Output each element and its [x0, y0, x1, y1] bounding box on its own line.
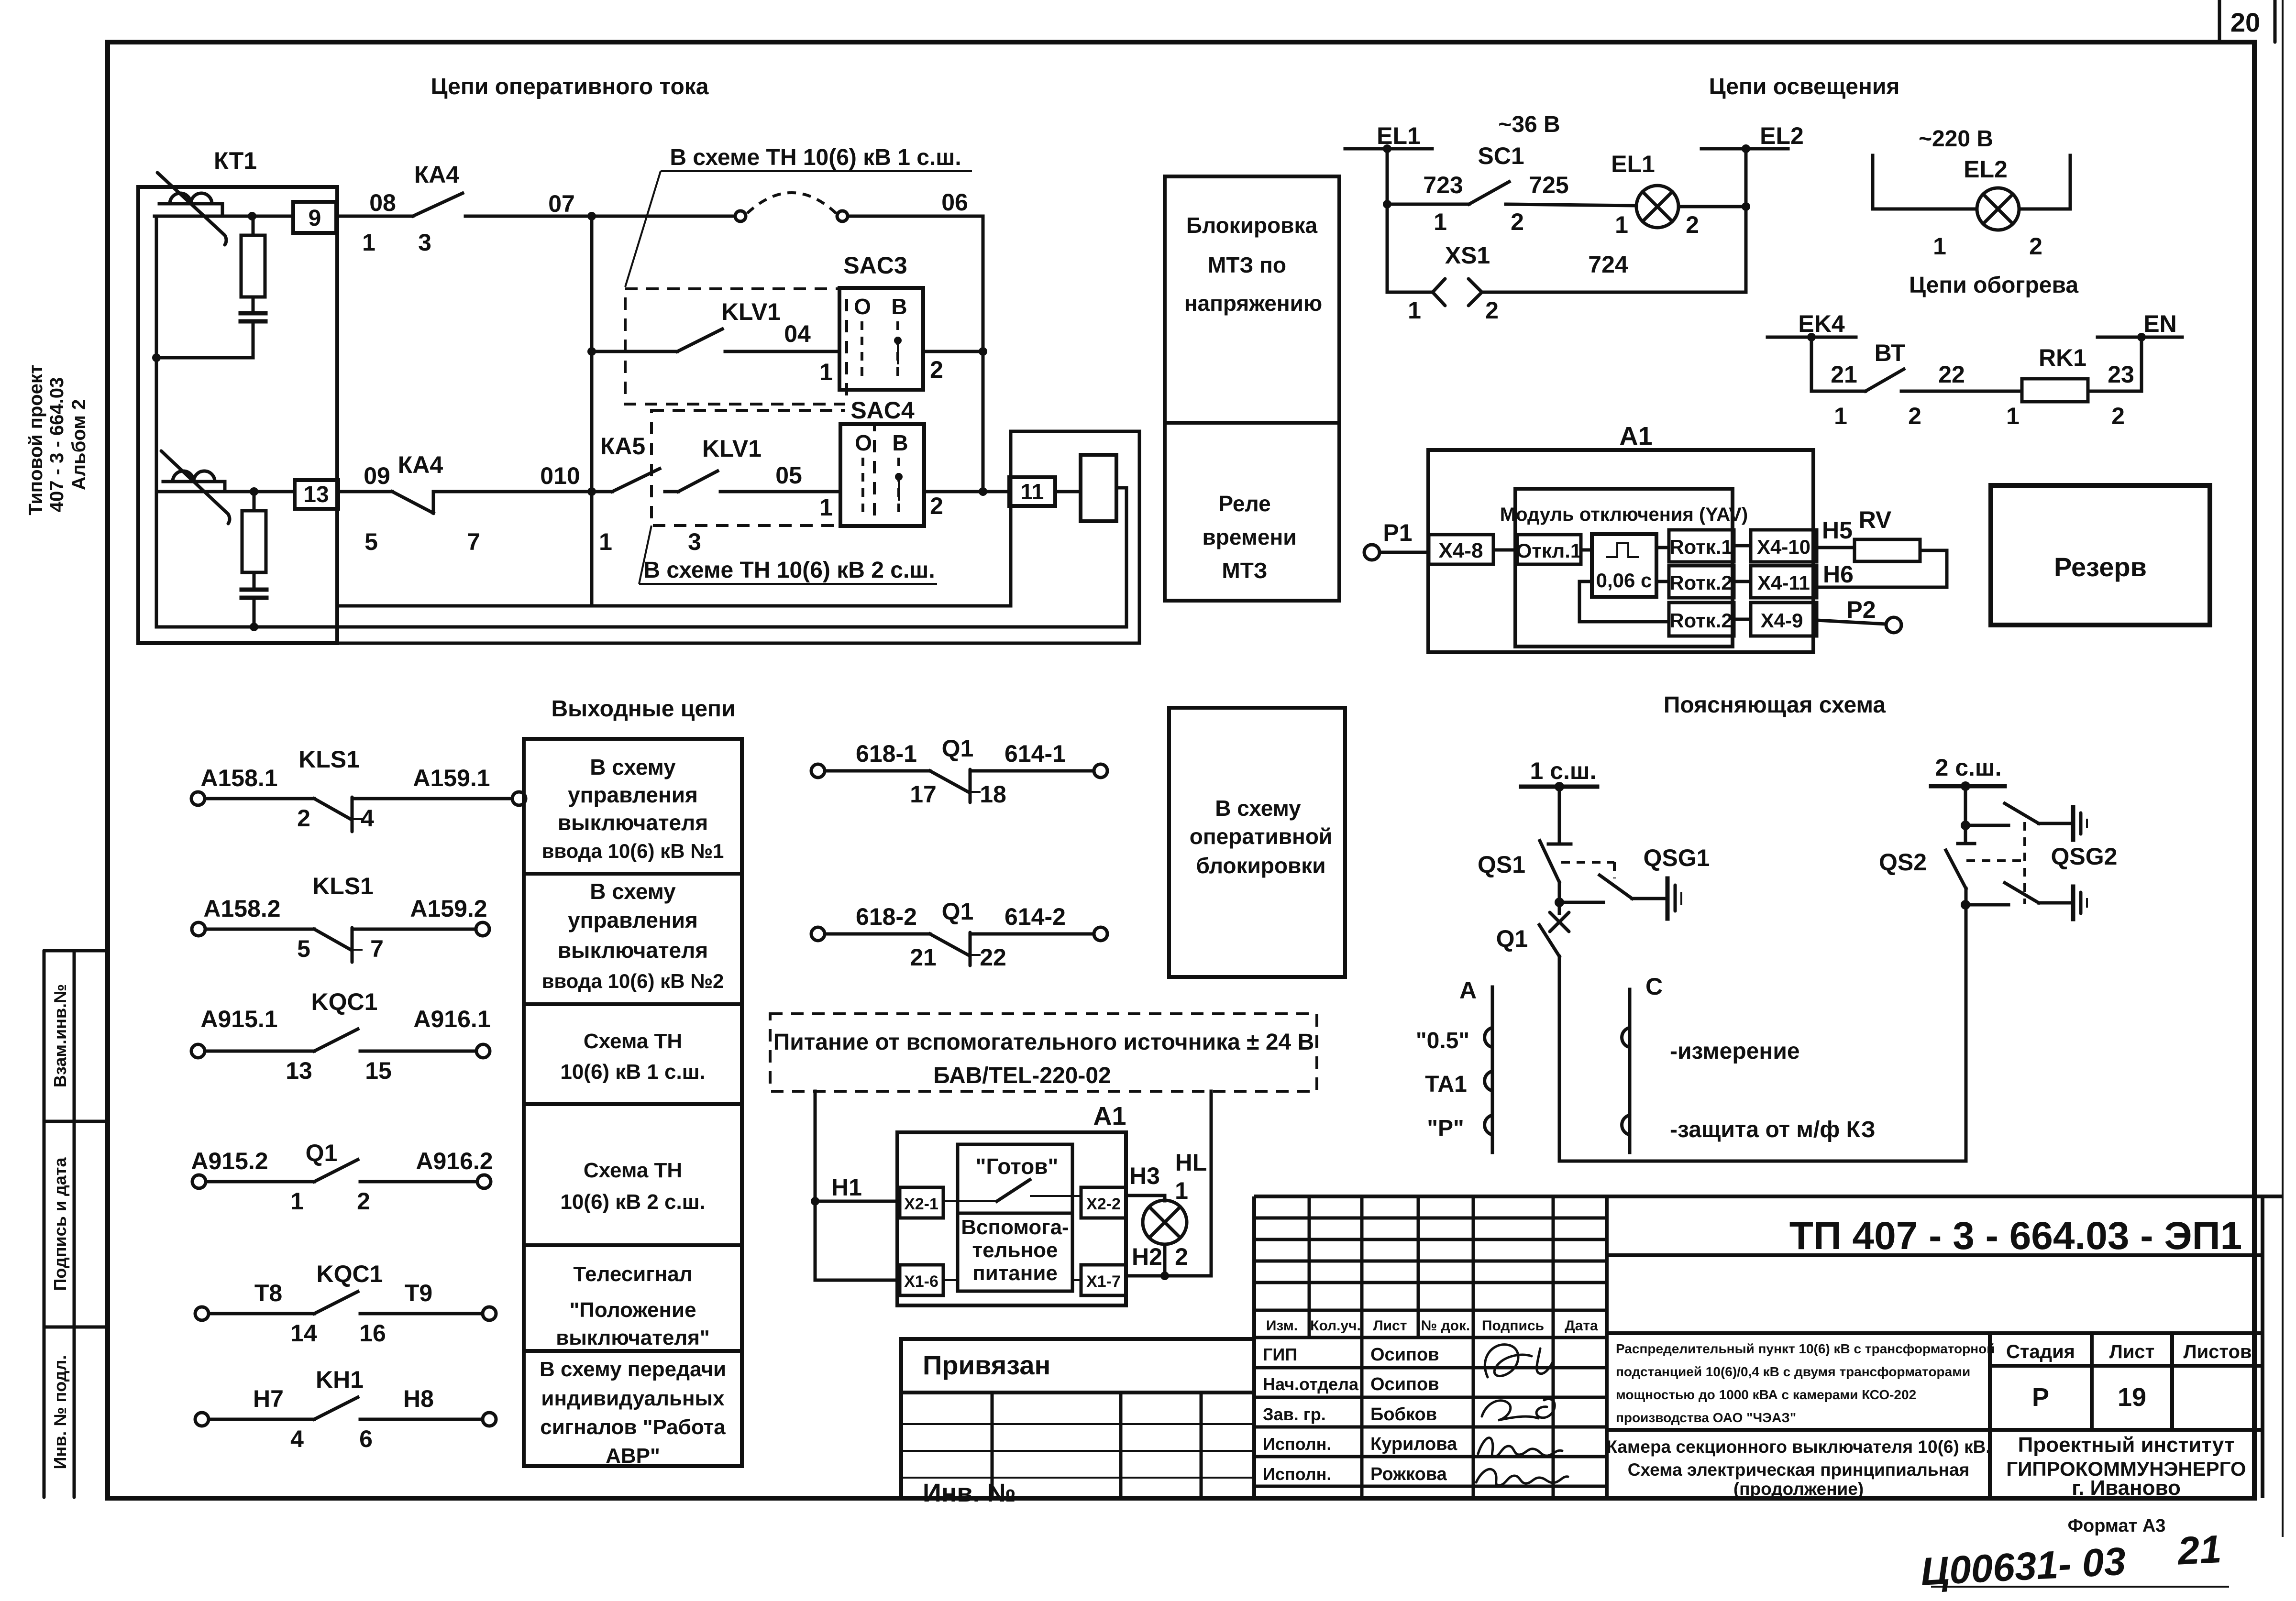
box text 5 — [556, 1262, 710, 1349]
svg-text:Инв. № подл.: Инв. № подл. — [50, 1355, 70, 1469]
svg-text:С: С — [1645, 973, 1663, 1000]
svg-text:KLS1: KLS1 — [312, 873, 374, 899]
svg-text:Кол.уч.: Кол.уч. — [1310, 1318, 1361, 1334]
svg-text:Р: Р — [2032, 1383, 2049, 1412]
terminal box 9 — [293, 202, 336, 233]
divider — [1607, 1331, 2263, 1335]
ready contact — [943, 1180, 1081, 1201]
svg-text:Телесигнал: Телесигнал — [573, 1262, 692, 1286]
wire — [1734, 580, 1751, 583]
svg-text:5: 5 — [297, 935, 310, 962]
svg-text:Т8: Т8 — [254, 1280, 282, 1306]
220V left stub — [1871, 155, 1875, 209]
svg-text:9: 9 — [309, 206, 321, 231]
breaker Q1 X mark — [1550, 902, 1569, 932]
wire to QSG2 lower — [1965, 903, 2009, 907]
svg-text:2: 2 — [1511, 208, 1524, 235]
svg-text:ВТ: ВТ — [1875, 340, 1906, 366]
svg-text:EL2: EL2 — [1964, 156, 2008, 183]
svg-text:Rотк.2: Rотк.2 — [1669, 609, 1733, 632]
box: В схему оперативной блокировки — [1169, 708, 1345, 977]
EK4 stub — [1767, 333, 1856, 341]
box text 2 — [542, 879, 724, 992]
box text 4 — [560, 1159, 705, 1214]
terminal X2-2 — [1081, 1187, 1126, 1218]
svg-text:SC1: SC1 — [1478, 143, 1524, 169]
contact SC1 — [1469, 182, 1509, 204]
bottom module A1 box — [897, 1132, 1126, 1305]
svg-text:Х4-9: Х4-9 — [1761, 609, 1803, 632]
svg-text:14: 14 — [290, 1320, 317, 1347]
wire row C left — [156, 490, 295, 493]
svg-text:19: 19 — [2118, 1383, 2146, 1412]
svg-text:Подпись: Подпись — [1482, 1318, 1544, 1334]
svg-text:времени: времени — [1202, 525, 1296, 549]
svg-text:АВР": АВР" — [606, 1444, 660, 1468]
svg-text:Н6: Н6 — [1823, 561, 1854, 588]
reserve box Резерв — [1991, 485, 2210, 625]
svg-text:В: В — [892, 430, 908, 455]
title block outer — [1607, 1196, 2283, 1498]
svg-text:Н7: Н7 — [253, 1385, 284, 1412]
svg-text:напряжению: напряжению — [1184, 291, 1322, 316]
svg-text:~36 В: ~36 В — [1498, 112, 1560, 137]
svg-text:1: 1 — [1434, 208, 1447, 235]
svg-text:20: 20 — [2230, 7, 2260, 37]
output circuits destination boxes — [524, 739, 742, 1466]
contact KQC1 row — [191, 1029, 490, 1058]
junction node row B — [587, 347, 596, 356]
leader + label: В схеме ТН 10(6) кВ 1 с.ш. — [625, 145, 972, 287]
resistor R of KT1 (row A) — [252, 216, 255, 235]
svg-text:(продолжение): (продолжение) — [1733, 1479, 1864, 1499]
divider — [1607, 1428, 2263, 1432]
svg-text:Н5: Н5 — [1822, 517, 1853, 544]
terminal box 11 — [1009, 477, 1055, 506]
svg-text:КА4: КА4 — [398, 451, 443, 478]
svg-text:010: 010 — [540, 462, 580, 489]
svg-text:Схема ТН: Схема ТН — [584, 1030, 682, 1053]
svg-text:04: 04 — [784, 320, 811, 347]
stamp label Взам.инв.№ — [50, 984, 70, 1087]
page number box 20 — [2219, 0, 2275, 42]
svg-text:KQC1: KQC1 — [311, 988, 378, 1015]
svg-text:О: О — [855, 430, 872, 455]
contact KLV1 (row C) — [678, 471, 717, 492]
svg-text:EL2: EL2 — [1760, 122, 1804, 149]
feeder wire down/across/up — [1559, 905, 1966, 1161]
svg-text:Х4-11: Х4-11 — [1757, 571, 1810, 594]
role column — [1263, 1345, 1359, 1484]
leader + label: В схеме ТН 10(6) кВ 2 с.ш. — [639, 526, 937, 584]
svg-text:HL: HL — [1175, 1149, 1207, 1176]
wire to relay coil — [1055, 490, 1081, 493]
svg-text:1: 1 — [1408, 297, 1421, 324]
wire from bus 1 — [1558, 787, 1561, 844]
svg-text:Р2: Р2 — [1846, 596, 1876, 623]
ground symbol — [2073, 807, 2087, 840]
svg-text:Блокировка: Блокировка — [1186, 213, 1318, 238]
module A1 box — [1428, 450, 1813, 652]
svg-text:выключателя: выключателя — [558, 938, 708, 963]
svg-text:В схеме ТН 10(6) кВ 1 с.ш.: В схеме ТН 10(6) кВ 1 с.ш. — [670, 145, 961, 170]
wire from lamp — [2019, 208, 2070, 211]
open terminal circle right — [837, 211, 848, 221]
doc number cell — [1607, 1253, 2263, 1257]
svg-text:Лист: Лист — [1373, 1318, 1407, 1334]
svg-text:управления: управления — [568, 782, 698, 807]
svg-text:7: 7 — [467, 528, 480, 555]
box text 3 — [560, 1030, 705, 1084]
junction node — [1383, 200, 1391, 208]
svg-text:Привязан: Привязан — [923, 1350, 1050, 1380]
current transformer CT1 — [157, 173, 226, 245]
svg-text:А: А — [1459, 977, 1477, 1004]
dashed box: auxiliary power supply — [770, 1014, 1317, 1091]
svg-text:7: 7 — [370, 935, 384, 962]
block Rотк.2 (lower) — [1669, 603, 1734, 636]
svg-text:13: 13 — [286, 1057, 312, 1084]
svg-text:В схему: В схему — [590, 879, 676, 904]
wire to lamp — [1873, 208, 1977, 211]
svg-text:3: 3 — [418, 229, 431, 256]
wire from EK4 — [1811, 337, 1865, 391]
junction node — [587, 212, 596, 220]
lamp EL1 — [1636, 186, 1678, 228]
svg-text:09: 09 — [364, 462, 390, 489]
right vertical wire — [1744, 149, 1748, 292]
svg-text:-защита от м/ф КЗ: -защита от м/ф КЗ — [1670, 1117, 1876, 1142]
svg-text:А916.1: А916.1 — [413, 1006, 490, 1032]
svg-text:Типовой проект: Типовой проект — [25, 364, 46, 515]
svg-text:21: 21 — [2175, 1527, 2222, 1573]
wire 04 — [725, 350, 839, 353]
description text — [1616, 1341, 1995, 1425]
svg-text:ввода 10(6) кВ №1: ввода 10(6) кВ №1 — [542, 840, 724, 862]
svg-text:22: 22 — [1938, 361, 1965, 388]
contact BT — [1865, 369, 1904, 391]
pulse timer block 0,06 с — [1592, 534, 1656, 597]
signature Бобков — [1482, 1399, 1555, 1420]
svg-text:Стадия: Стадия — [2006, 1341, 2075, 1362]
svg-text:Rотк.1: Rотк.1 — [1669, 536, 1733, 558]
svg-text:EL1: EL1 — [1611, 151, 1655, 177]
svg-text:1 с.ш.: 1 с.ш. — [1530, 757, 1597, 784]
svg-text:15: 15 — [365, 1057, 392, 1084]
svg-text:А915.1: А915.1 — [200, 1006, 277, 1032]
svg-text:1: 1 — [362, 229, 375, 256]
left vertical wire — [155, 216, 158, 627]
svg-text:XS1: XS1 — [1445, 242, 1490, 269]
svg-text:А158.1: А158.1 — [200, 765, 277, 791]
svg-text:2: 2 — [2111, 403, 2125, 429]
svg-text:3: 3 — [688, 528, 701, 555]
svg-text:КТ1: КТ1 — [214, 147, 257, 174]
svg-text:2: 2 — [930, 356, 943, 383]
wire — [1493, 548, 1517, 552]
wire 723 — [1387, 203, 1469, 206]
wire P1 to X4-8 — [1380, 551, 1429, 554]
contact Q1 (618-2/614-2) — [811, 927, 1107, 965]
wire H1 — [815, 1200, 900, 1203]
lamp bottom wire — [1163, 1244, 1167, 1276]
svg-text:г. Иваново: г. Иваново — [2072, 1476, 2181, 1500]
resistor RV — [1854, 539, 1920, 561]
svg-text:Н8: Н8 — [403, 1385, 434, 1412]
svg-text:23: 23 — [2108, 361, 2134, 388]
svg-text:RK1: RK1 — [2039, 344, 2086, 371]
wire row A from CT1 — [155, 215, 293, 218]
svg-text:22: 22 — [980, 944, 1006, 971]
contact KLS1 row — [191, 792, 526, 832]
svg-text:SAC4: SAC4 — [850, 397, 915, 424]
svg-text:Р1: Р1 — [1383, 519, 1412, 546]
wire XS1 row — [1387, 291, 1433, 294]
svg-text:Х1-7: Х1-7 — [1086, 1272, 1121, 1291]
wire H5 — [1817, 546, 1854, 549]
open terminal circle left — [735, 211, 746, 221]
wire — [1734, 544, 1751, 548]
enclosure box around terminal 11 — [1011, 431, 1139, 643]
names column — [1370, 1345, 1457, 1484]
svg-text:KLS1: KLS1 — [298, 746, 360, 773]
label Вспомогательное питание — [961, 1216, 1069, 1285]
svg-text:ТА1: ТА1 — [1425, 1072, 1467, 1097]
svg-text:724: 724 — [1588, 251, 1628, 278]
terminal X1-6 — [900, 1265, 943, 1295]
svg-text:Листов: Листов — [2184, 1341, 2252, 1362]
svg-text:Q1: Q1 — [1496, 925, 1528, 952]
svg-text:618-2: 618-2 — [856, 903, 917, 930]
signature table — [1254, 1196, 1607, 1498]
table headers — [1266, 1318, 1598, 1334]
svg-text:индивидуальных: индивидуальных — [541, 1387, 725, 1410]
svg-text:Х1-6: Х1-6 — [904, 1272, 938, 1291]
junction node — [811, 1197, 819, 1206]
box text 6 — [540, 1358, 726, 1468]
svg-text:KH1: KH1 — [316, 1366, 364, 1393]
junction node — [1742, 202, 1750, 211]
EL1 supply stub — [1345, 144, 1432, 153]
mechanical link dashed — [1966, 822, 2025, 904]
junction node — [248, 212, 256, 220]
svg-text:Q1: Q1 — [942, 898, 974, 925]
disconnector QS1 — [1540, 841, 1559, 902]
wire — [1581, 548, 1592, 552]
inner enclosure line — [337, 604, 1011, 608]
wire SAC4 to node — [924, 490, 1009, 493]
svg-text:4: 4 — [290, 1426, 304, 1452]
svg-text:А159.1: А159.1 — [413, 765, 490, 791]
svg-text:2 с.ш.: 2 с.ш. — [1935, 754, 2002, 781]
wire — [1656, 546, 1669, 549]
svg-text:21: 21 — [1831, 361, 1857, 388]
contact KLS1 row — [192, 922, 489, 962]
block Откл.1 — [1516, 535, 1581, 564]
svg-text:"Положение: "Положение — [569, 1298, 696, 1322]
svg-text:2: 2 — [1485, 297, 1499, 324]
wire to QSG1 — [1559, 901, 1603, 904]
svg-text:Цепи оперативного тока: Цепи оперативного тока — [431, 74, 709, 99]
svg-text:мощностью до 1000 кВА с камера: мощностью до 1000 кВА с камерами КСО-202 — [1616, 1387, 1916, 1402]
lower-left sub table — [901, 1393, 1254, 1498]
box: Блокировка МТЗ по напряжению / Реле времени МТЗ — [1165, 176, 1339, 601]
junction node — [1160, 1272, 1169, 1280]
junction node — [250, 623, 258, 631]
svg-text:подстанцией 10(6)/0,4 кВ с дву: подстанцией 10(6)/0,4 кВ с двумя трансфо… — [1616, 1364, 1970, 1379]
wire 08 — [336, 215, 413, 218]
svg-text:618-1: 618-1 — [856, 740, 917, 767]
svg-text:2: 2 — [1908, 403, 1921, 429]
svg-text:725: 725 — [1529, 172, 1568, 198]
wire lamp to right vertical — [1678, 205, 1746, 208]
svg-text:Подпись и дата: Подпись и дата — [50, 1157, 70, 1291]
svg-text:Альбом 2: Альбом 2 — [68, 399, 89, 490]
svg-text:13: 13 — [303, 482, 329, 507]
EL2 supply stub — [1701, 144, 1788, 153]
junction node — [1961, 900, 1970, 910]
institute name — [2006, 1433, 2246, 1500]
svg-text:БАВ/TEL-220-02: БАВ/TEL-220-02 — [933, 1063, 1111, 1088]
svg-text:614-1: 614-1 — [1004, 740, 1066, 767]
capacitor C of KT1 (row C) — [242, 572, 266, 627]
svg-text:КА4: КА4 — [414, 161, 460, 188]
svg-text:10(6) кВ 1 с.ш.: 10(6) кВ 1 с.ш. — [560, 1060, 705, 1084]
svg-text:Питание от вспомогательного ис: Питание от вспомогательного источника ± … — [773, 1030, 1314, 1055]
svg-text:Q1: Q1 — [942, 735, 974, 762]
grounding switch QSG1 — [1600, 875, 1666, 899]
grounding switch QSG2 upper — [2005, 803, 2071, 823]
svg-text:SAC3: SAC3 — [843, 252, 907, 279]
left margin label: Типовой проект — [25, 364, 46, 515]
svg-text:Инв. №: Инв. № — [923, 1479, 1016, 1507]
svg-text:Резерв: Резерв — [2054, 552, 2147, 582]
svg-text:08: 08 — [369, 189, 396, 216]
junction node — [979, 347, 987, 356]
svg-text:А159.2: А159.2 — [410, 895, 487, 922]
signature Рожкова — [1476, 1469, 1568, 1485]
svg-text:6: 6 — [359, 1426, 373, 1452]
switch SAC4 box — [840, 424, 924, 526]
svg-text:В схему: В схему — [590, 755, 676, 779]
svg-text:Х2-2: Х2-2 — [1086, 1195, 1121, 1213]
svg-text:МТЗ: МТЗ — [1222, 558, 1267, 583]
wire P2 — [1817, 620, 1886, 624]
svg-text:питание: питание — [972, 1261, 1058, 1285]
svg-text:EN: EN — [2143, 310, 2176, 337]
svg-text:Зав. гр.: Зав. гр. — [1263, 1404, 1326, 1424]
resistor R of KT1 (row C) — [253, 492, 256, 511]
contact KA4 (row C) — [392, 492, 433, 513]
svg-text:А915.2: А915.2 — [191, 1148, 268, 1174]
wire 22 — [1901, 390, 2022, 393]
svg-text:17: 17 — [910, 781, 937, 808]
svg-text:1: 1 — [819, 359, 833, 385]
svg-text:Нач.отдела: Нач.отдела — [1263, 1374, 1359, 1394]
svg-text:18: 18 — [980, 781, 1006, 808]
svg-text:Бобков: Бобков — [1370, 1404, 1437, 1425]
plug-socket XS1 — [1433, 279, 1482, 306]
svg-text:оперативной: оперативной — [1190, 824, 1332, 849]
svg-text:Поясняющая схема: Поясняющая схема — [1664, 692, 1886, 718]
svg-text:А1: А1 — [1619, 422, 1652, 450]
stage/sheet header cells — [1990, 1333, 2263, 1430]
capacitor C of KT1 (row A) — [241, 297, 265, 358]
svg-text:А1: А1 — [1093, 1102, 1126, 1130]
wire 010 — [433, 490, 612, 493]
svg-text:Rотк.2: Rотк.2 — [1669, 571, 1733, 594]
resistor RK1 — [2022, 379, 2088, 402]
svg-text:В: В — [891, 294, 907, 319]
svg-text:Схема электрическая принципиал: Схема электрическая принципиальная — [1628, 1460, 1969, 1480]
svg-text:10(6) кВ 2 с.ш.: 10(6) кВ 2 с.ш. — [560, 1190, 705, 1214]
svg-text:11: 11 — [1021, 479, 1044, 504]
wire 05 — [720, 490, 840, 493]
svg-text:Выходные цепи: Выходные цепи — [551, 696, 735, 722]
svg-text:Курилова: Курилова — [1370, 1434, 1457, 1454]
svg-text:Схема ТН: Схема ТН — [584, 1159, 682, 1182]
junction node — [587, 487, 596, 496]
lamp HL — [1143, 1200, 1187, 1244]
svg-text:Q1: Q1 — [306, 1140, 338, 1166]
lamp EL2 — [1977, 188, 2019, 230]
left margin label: Альбом 2 — [68, 399, 89, 490]
svg-text:О: О — [854, 294, 871, 319]
inner divider — [958, 1212, 1072, 1215]
svg-text:2: 2 — [930, 493, 943, 519]
svg-text:QS2: QS2 — [1879, 849, 1927, 876]
CT ТА1 phase A core — [1485, 987, 1492, 1152]
svg-text:выключателя: выключателя — [558, 810, 708, 835]
svg-text:Х4-8: Х4-8 — [1439, 539, 1483, 562]
svg-text:614-2: 614-2 — [1004, 903, 1066, 930]
svg-text:Н2: Н2 — [1132, 1243, 1162, 1270]
svg-text:2: 2 — [2029, 233, 2042, 260]
svg-text:Осипов: Осипов — [1370, 1345, 1439, 1365]
wire 06 — [848, 216, 983, 492]
svg-text:"0.5": "0.5" — [1416, 1028, 1469, 1053]
svg-text:сигналов "Работа: сигналов "Работа — [540, 1415, 726, 1439]
svg-text:В схему передачи: В схему передачи — [540, 1358, 726, 1381]
contact KA4 (row A) — [413, 193, 463, 216]
contact KA5 — [612, 469, 660, 492]
contact Q1 (618-1/614-1) — [811, 764, 1107, 802]
svg-text:Х2-1: Х2-1 — [904, 1195, 938, 1213]
svg-text:Исполн.: Исполн. — [1263, 1434, 1331, 1454]
contact KH1 row — [195, 1397, 496, 1426]
wire H3 — [1126, 1195, 1165, 1201]
coil return wire — [1116, 488, 1126, 627]
module otkl box (YAV) — [1515, 489, 1733, 647]
wire pulse to Rотк.2 — [1656, 580, 1669, 583]
terminal X4-11 — [1751, 566, 1817, 598]
terminal X4-8 — [1429, 535, 1493, 564]
loop return row A — [156, 356, 253, 360]
svg-text:07: 07 — [548, 190, 575, 217]
svg-text:Н3: Н3 — [1129, 1162, 1160, 1189]
svg-text:1: 1 — [290, 1188, 304, 1215]
svg-text:2: 2 — [1686, 211, 1699, 238]
wire from bus 2 — [1964, 786, 1967, 825]
svg-text:"Р": "Р" — [1427, 1116, 1464, 1141]
busbar 2 — [1931, 781, 2005, 791]
svg-text:KQC1: KQC1 — [317, 1261, 383, 1287]
switch SAC4 label — [845, 400, 921, 422]
wires inner to terminals — [815, 1279, 1081, 1282]
wire to QSG2 upper — [1965, 824, 2009, 827]
KT1 enclosure box — [138, 187, 337, 643]
feedback wire to lower Rотк.2 — [1579, 581, 1669, 622]
